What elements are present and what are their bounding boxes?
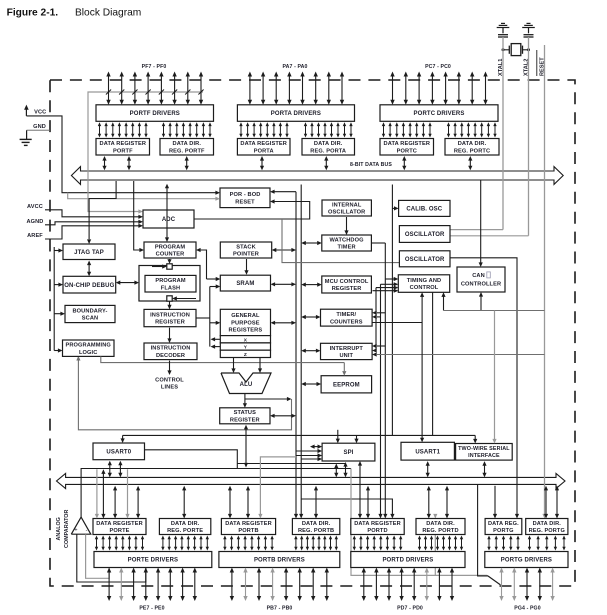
eeprom U [321,376,372,393]
svg-text:ALU: ALU [240,382,253,388]
gpr service vline [209,287,211,347]
svg-text:OSCILLATOR: OSCILLATOR [328,210,365,216]
svg-text:DATA DIR.: DATA DIR. [302,521,331,527]
status register U [220,408,270,424]
sr right arrows [270,414,296,418]
data register portc [380,139,434,156]
svg-text:REG. PORTA: REG. PORTA [310,148,346,154]
gpr x row [220,336,270,344]
eeprom feed arrow [342,363,346,376]
ir-id arrow [167,328,171,343]
spi U [322,443,375,461]
svg-text:PURPOSE: PURPOSE [231,320,260,326]
svg-text:CAN: CAN [472,273,485,279]
svg-text:SRAM: SRAM [236,281,254,287]
right bottom gray loop [351,469,500,585]
por-bod right wire1 [270,190,296,194]
data dir reg portf [160,139,214,156]
PORTC pin arrows [390,72,487,105]
svg-text:RESET: RESET [235,199,255,205]
ocd right arrows [116,281,139,302]
svg-text:PORTF DRIVERS: PORTF DRIVERS [130,111,180,117]
control lines [155,361,184,391]
tac left arrows [373,277,399,293]
svg-text:AGND: AGND [27,219,44,225]
plogic left arrow [54,348,62,352]
svg-text:Z: Z [244,352,247,358]
instruction decoder U [144,343,197,360]
svg-text:REG. PORTF: REG. PORTF [169,148,205,154]
porte drivers [94,552,212,568]
sp-sram arrow [244,259,248,275]
eeprom left arrows [301,382,321,386]
jtag-ocd arrows [87,261,91,277]
svg-text:OSCILLATOR: OSCILLATOR [405,232,445,238]
AREF pin [27,224,143,239]
svg-text:DATA DIR.: DATA DIR. [314,141,343,147]
portb dir fan [294,536,338,551]
usart1 bus arrows [426,461,430,477]
sram right arrows [271,282,297,286]
svg-text:ON-CHIP DEBUG: ON-CHIP DEBUG [64,283,114,289]
svg-text:GENERAL: GENERAL [231,313,260,319]
spi portb wire [237,464,345,478]
internal oscillator U [322,200,371,216]
program flash U [145,275,196,292]
svg-text:PE7 - PE0: PE7 - PE0 [139,605,164,611]
AGND pin [27,219,143,225]
watchdog timer U [322,235,372,251]
usart0 U [93,443,145,460]
portb pins [230,568,329,602]
XTAL1 net [502,45,504,230]
svg-text:Block Diagram: Block Diagram [75,8,141,19]
PA7-PA0 pin label [282,64,307,70]
data reg portg [485,519,522,535]
svg-text:PA7 - PA0: PA7 - PA0 [282,64,307,70]
jtag feed wire [87,181,116,244]
mcu control register U [322,276,372,293]
flash-ir arrow [167,301,171,309]
svg-text:REG. PORTD: REG. PORTD [422,528,458,534]
XTAL1 ground cap [497,23,510,45]
xtal2-osc wire [450,235,529,237]
svg-text:TIMING AND: TIMING AND [407,278,442,284]
svg-text:DATA REGISTER: DATA REGISTER [225,521,272,527]
svg-text:BOUNDARY-: BOUNDARY- [72,308,107,314]
usart1 U [401,442,454,460]
porta bus arrows [260,156,329,170]
svg-text:STATUS: STATUS [234,410,257,416]
analog comparator U [71,517,91,534]
portb bus arrows [228,486,318,519]
twi portg wire [478,484,501,585]
bus-can arrow [479,180,483,267]
analog net to ADC [88,92,203,214]
portg bus arrows [493,486,559,519]
can clock wire [444,292,545,311]
porte pins [107,568,197,602]
comparator plus input [86,534,110,578]
calib feed [392,185,398,437]
trunk A x296 [294,192,298,519]
intosc-wdt arrow [344,217,348,235]
sr bottom link [244,425,248,468]
svg-text:PORTE DRIVERS: PORTE DRIVERS [128,558,179,564]
PB7-PB0 label [267,605,293,611]
portc dir fan [447,122,497,137]
svg-text:Figure 2-1.: Figure 2-1. [7,8,59,19]
usart1 top arrow [420,323,424,443]
svg-text:REGISTER: REGISTER [332,286,362,292]
portf drivers [96,105,214,122]
plogic eeprom wire [101,356,344,362]
calib osc U [399,200,450,216]
svg-text:INTERRUPT: INTERRUPT [330,346,364,352]
portc drivers [380,105,498,122]
svg-text:XTAL1: XTAL1 [498,59,504,76]
oscillator2 U [399,251,450,267]
left service trunk [53,247,55,351]
svg-text:PORTG DRIVERS: PORTG DRIVERS [501,558,552,564]
svg-text:INTERNAL: INTERNAL [332,202,362,208]
gpr z row [220,350,270,358]
mcucr left arrows [301,283,322,287]
bscan left arrow [54,312,65,316]
on-chip debug U [63,276,116,293]
GND pin [27,124,50,130]
svg-text:PB7 - PB0: PB7 - PB0 [267,605,293,611]
svg-text:DATA DIR.: DATA DIR. [426,521,455,527]
program counter U [144,242,196,258]
gpr y row [220,343,270,351]
svg-text:COUNTERS: COUNTERS [330,319,363,325]
gpr x out arrow [211,337,221,341]
data register portd [351,519,404,535]
svg-text:CONTROLLER: CONTROLLER [461,282,501,288]
data dir reg portc [445,139,499,156]
svg-text:PORTG: PORTG [493,528,514,534]
stack pointer U [220,242,271,258]
portb gray feed [258,457,296,519]
svg-text:DATA REGISTER: DATA REGISTER [384,141,431,147]
iu right arrows [372,344,544,357]
XTAL2 label [524,59,530,76]
adc U [143,210,194,228]
svg-text:PROGRAM: PROGRAM [155,278,185,284]
xtal1-osc wire [450,229,503,231]
svg-text:SPI: SPI [343,450,353,456]
svg-text:PORTD DRIVERS: PORTD DRIVERS [382,558,433,564]
data dir reg porta [302,139,355,156]
svg-text:8-BIT DATA BUS: 8-BIT DATA BUS [350,162,392,168]
sram U [220,275,270,291]
data register portf [96,139,150,156]
twi U [456,444,513,461]
svg-text:POINTER: POINTER [233,252,259,258]
data dir reg porte [159,519,210,535]
portd dir fan [418,536,463,551]
svg-text:MCU CONTROL: MCU CONTROL [325,279,369,285]
gpr in arrow [210,321,221,325]
porte bus arrows [95,469,187,518]
svg-text:DATA REGISTER: DATA REGISTER [100,141,147,147]
wdt right wire [371,242,385,244]
sram left arrows [207,277,221,289]
portd drivers [351,552,465,568]
svg-text:TIMER: TIMER [338,245,356,251]
PORTA pin arrows [248,72,345,105]
analog comparator label [56,510,70,548]
svg-text:REGISTER: REGISTER [155,320,185,326]
oscillator1 U [399,226,450,243]
XTAL2 net [528,45,530,236]
svg-text:DECODER: DECODER [156,353,185,359]
comparator minus input [77,534,146,582]
gpr right arrows [271,321,297,325]
can controller U [457,267,505,292]
svg-text:STACK: STACK [236,244,256,250]
svg-text:REG. PORTB: REG. PORTB [298,528,334,534]
svg-text:OSCILLATOR: OSCILLATOR [405,257,445,263]
bundle v376 [375,288,377,351]
pc left wire [134,181,144,252]
svg-text:+: + [74,528,77,534]
svg-text:PORTB: PORTB [238,528,258,534]
figure title [7,8,142,19]
svg-text:REG. PORTC: REG. PORTC [454,148,490,154]
portc bus arrows [402,156,472,170]
chip dashed border [50,80,575,586]
svg-text:ADC: ADC [162,217,176,223]
svg-text:DATA REGISTER: DATA REGISTER [240,141,287,147]
alu U [221,373,271,394]
PD7-PD0 label [397,605,423,611]
svg-text:AREF: AREF [27,233,43,239]
svg-text:CALIB. OSC: CALIB. OSC [406,207,442,213]
usart0 top arrow [121,435,125,443]
AVCC pin [27,204,143,219]
crystal Y1 [502,44,531,56]
ocd left arrow [54,283,63,287]
svg-text:TWO-WIRE SERIAL: TWO-WIRE SERIAL [458,446,510,452]
portg dir fan [528,536,566,551]
spi bus arrows [343,461,362,519]
tac bottom wires [420,292,446,436]
PE7-PE0 label [139,605,164,611]
svg-text:PORTC DRIVERS: PORTC DRIVERS [414,111,465,117]
PORTF pin arrows [106,72,204,105]
por-bod gray feed [68,193,220,201]
svg-text:PORTF: PORTF [113,148,133,154]
svg-text:EEPROM: EEPROM [333,382,360,388]
data dir reg portd [416,519,465,535]
wire band black [123,434,476,436]
portd pins [362,568,455,602]
data register porte [93,519,146,535]
PC7-PC0 pin label [425,64,451,70]
svg-text:LOGIC: LOGIC [79,350,97,356]
svg-text:CONTROL: CONTROL [410,285,439,291]
portb drivers [219,552,340,568]
svg-text:TIMER/: TIMER/ [336,312,356,318]
twi bus arrows [482,461,486,477]
portf dir fan [162,122,212,137]
ir right wire [196,317,210,319]
svg-text:AVCC: AVCC [27,204,43,210]
svg-text:PORTE: PORTE [109,528,129,534]
pc bus arrows [165,184,169,242]
svg-text:DATA DIR.: DATA DIR. [171,521,200,527]
svg-text:INSTRUCTION: INSTRUCTION [151,346,191,352]
svg-text:PD7 - PD0: PD7 - PD0 [397,605,423,611]
osc2 portg wire [450,258,519,519]
8-bit data bus [71,162,563,185]
porta dir fan [304,122,353,137]
usart0 right wire [145,450,238,469]
svg-text:PORTD: PORTD [367,528,387,534]
portd reg fan [353,536,403,551]
boundary scan U [65,305,115,322]
svg-text:DATA REG.: DATA REG. [488,521,519,527]
svg-text:FLASH: FLASH [161,285,180,291]
svg-text:PC7 - PC0: PC7 - PC0 [425,64,451,70]
portg reg fan [487,536,519,551]
sp right arrows [272,248,296,252]
mux latch bottom [167,296,196,301]
twi top arrows [473,311,497,444]
spi left arrows [296,445,322,462]
portd bus arrows [366,486,449,519]
svg-text:DATA REGISTER: DATA REGISTER [96,521,143,527]
svg-text:PORTA: PORTA [254,148,274,154]
clock feed wire [282,219,399,263]
svg-text:DATA DIR.: DATA DIR. [173,141,202,147]
gpr y out arrow [211,345,221,349]
XTAL1 label [498,59,504,76]
svg-text:REG. PORTE: REG. PORTE [167,528,203,534]
VCC pin [24,105,220,195]
porta drivers [237,105,354,122]
programming logic U [63,340,115,356]
svg-text:REGISTERS: REGISTERS [229,328,263,334]
porta reg fan [239,122,288,137]
svg-text:DATA REGISTER: DATA REGISTER [354,521,401,527]
comparator out wire [81,469,351,518]
svg-text:CONTROL: CONTROL [155,377,184,383]
svg-text:REG. PORTG: REG. PORTG [529,528,565,534]
RESET net [542,45,546,519]
svg-text:PG4 - PG0: PG4 - PG0 [514,605,540,611]
mux latch top [152,264,172,269]
svg-text:LINES: LINES [161,385,178,391]
svg-text:REGISTER: REGISTER [230,417,260,423]
svg-text:COMPARATOR: COMPARATOR [64,510,70,548]
svg-text:GND: GND [33,124,46,130]
svg-text:DATA DIR.: DATA DIR. [533,521,562,527]
svg-text:PROGRAMMING: PROGRAMMING [65,343,111,349]
wire cpu bottom [76,356,291,430]
jtag tap U [63,244,115,260]
tc left arrows [301,315,320,319]
portg pins [499,568,555,602]
svg-text:SCAN: SCAN [82,316,98,322]
svg-text:INTERFACE: INTERFACE [468,453,500,459]
portb reg fan [223,536,274,551]
porte dir fan [161,536,209,551]
flash outer box [139,266,200,302]
svg-text:JTAG TAP: JTAG TAP [74,250,104,256]
spi top arrows [336,430,359,443]
svg-text:PF7 - PF0: PF7 - PF0 [142,64,167,70]
PF7-PF0 pin label [142,64,167,70]
bundle v385 [383,243,387,519]
gpr-alu arrows [231,358,262,374]
svg-text:USART0: USART0 [106,450,131,456]
data register portb [221,519,275,535]
svg-text:USART1: USART1 [415,449,440,455]
lower data bus [57,473,566,488]
por-bod reset U [220,188,270,208]
svg-text:-: - [86,528,88,534]
svg-text:PROGRAM: PROGRAM [155,244,185,250]
data dir reg portg [526,519,568,535]
usart0 bus arrows [108,461,123,478]
svg-text:PORTA DRIVERS: PORTA DRIVERS [271,111,321,117]
svg-text:WATCHDOG: WATCHDOG [330,237,365,243]
timing and control U [398,275,449,293]
PG4-PG0 label [514,605,540,611]
portf bus arrows [102,156,188,170]
trunk B x301 [299,185,303,519]
ground symbol [20,130,32,145]
portg drivers [485,552,568,568]
por-bod right wire2 [194,199,310,219]
XTAL2 ground cap [522,23,535,45]
pc-mux arrow [167,259,171,264]
interrupt unit U [321,343,373,359]
instruction register U [144,309,196,326]
svg-text:XTAL2: XTAL2 [524,59,530,76]
alu out wires [243,394,292,408]
gpr U [220,309,270,335]
wdt left arrows [301,241,322,245]
porte reg fan [95,536,144,551]
svg-text:INSTRUCTION: INSTRUCTION [150,312,190,318]
svg-text:POR - BOD: POR - BOD [230,192,261,198]
iu left arrows [301,349,320,353]
portd reg feed wire [301,499,394,519]
svg-text:PORTC: PORTC [397,148,417,154]
portc reg fan [382,122,432,137]
jtag left arrow [54,248,63,252]
data register porta [237,139,290,156]
svg-text:UNIT: UNIT [339,353,353,359]
pc right wire [196,248,207,279]
bundle v380 [378,284,382,518]
tc right arrows [372,311,422,323]
timer counters U [321,309,373,326]
svg-text:ANALOG: ANALOG [56,517,62,540]
svg-text:DATA DIR.: DATA DIR. [458,141,487,147]
data dir reg portb [292,519,339,535]
portf reg fan [98,122,148,137]
RESET label [537,50,546,76]
svg-text:VCC: VCC [34,110,46,116]
svg-text:PORTB DRIVERS: PORTB DRIVERS [254,558,305,564]
svg-text:COUNTER: COUNTER [156,252,185,258]
